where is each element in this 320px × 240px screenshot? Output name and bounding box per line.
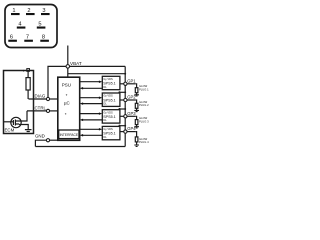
ECM box [4, 71, 34, 134]
wire: transistor drain to CTRL [19, 111, 27, 121]
svg-text:DL: DL [103, 135, 107, 139]
GND pin circle [46, 139, 49, 142]
VBAT bus vertical [124, 66, 126, 146]
resistor R (pull-up) [26, 78, 30, 90]
pin 2 [26, 8, 35, 15]
svg-text:8: 8 [42, 35, 45, 41]
label GND [35, 133, 45, 138]
GP2 pin circle [124, 98, 127, 101]
supply stub SPS3 [118, 108, 126, 110]
svg-text:+: + [23, 68, 26, 73]
glow module box [58, 77, 80, 140]
label DIAG [35, 94, 46, 99]
svg-text:*: * [66, 93, 68, 98]
pin 4 [17, 21, 26, 28]
wire: SPS2 output [120, 99, 135, 101]
wire: VBAT into module [67, 68, 69, 77]
wire: CTRL [27, 110, 47, 112]
label GP1 [127, 78, 136, 83]
svg-text:DIAG: DIAG [35, 94, 46, 99]
pin 6 [8, 35, 17, 42]
label GP4 [127, 126, 136, 131]
svg-text:PLUG 2: PLUG 2 [139, 103, 149, 107]
supply stub SPS2 [118, 91, 126, 93]
label CTRL [35, 106, 47, 111]
supply stub SPS4 [118, 125, 126, 127]
label glow plug 2 [139, 100, 149, 107]
label GP2 [127, 95, 136, 100]
svg-text:*: * [65, 112, 67, 117]
svg-text:1: 1 [12, 8, 15, 14]
SPS2 labels [103, 94, 116, 106]
ground (ECM internal) [25, 130, 32, 132]
label VBAT [70, 61, 82, 66]
GP3 pin circle [124, 115, 127, 118]
svg-text:DL: DL [103, 118, 107, 122]
arrow diag SPS4 [80, 134, 103, 137]
label glow plug 1 [139, 84, 149, 91]
VBAT stem [67, 46, 69, 65]
pin 5 [37, 21, 46, 28]
wire: GND [35, 140, 46, 146]
wire: resistor to DIAG node [27, 90, 29, 99]
svg-text:4: 4 [18, 21, 21, 27]
svg-text:ECM: ECM [5, 128, 15, 133]
arrow diag SPS1 [80, 87, 103, 90]
svg-text:5: 5 [38, 21, 41, 27]
arrow diag SPS2 [80, 102, 103, 105]
connector pinout box [5, 5, 57, 48]
transistor Q (low-side driver) [4, 117, 22, 127]
glow plug 2 [134, 100, 139, 112]
arrow diag SPS3 [80, 119, 103, 122]
svg-text:6: 6 [10, 35, 13, 41]
asterisk 2 [65, 112, 67, 117]
node: DIAG wire [29, 98, 47, 100]
wire: VBAT rail to bus [48, 66, 125, 97]
svg-text:INTERFACE: INTERFACE [60, 133, 79, 137]
svg-text:VBAT: VBAT [70, 61, 82, 66]
op-amp µC [64, 100, 70, 105]
svg-text:PLUG 3: PLUG 3 [139, 119, 149, 123]
junction A [124, 73, 126, 75]
SPS4 box [102, 126, 120, 139]
asterisk 1 [66, 93, 68, 98]
svg-text:3: 3 [42, 8, 45, 14]
svg-text:Gy VDS: Gy VDS [103, 94, 113, 98]
SPS1 labels [103, 77, 116, 89]
glow plug 1 [134, 84, 139, 96]
SPS2 box [102, 93, 120, 106]
arrow ctrl SPS1 [80, 80, 103, 83]
arrow ctrl SPS4 [80, 128, 103, 131]
svg-text:Gy VDS: Gy VDS [103, 110, 113, 114]
label glow plug 4 [139, 137, 149, 144]
GP1 pin circle [124, 82, 127, 85]
svg-text:GP3: GP3 [127, 111, 136, 116]
svg-text:GP1: GP1 [127, 78, 136, 83]
wire: GND pin to module [49, 139, 57, 141]
wire: terminal to resistor [27, 71, 29, 77]
arrow ctrl SPS2 [80, 96, 103, 99]
label GP3 [127, 111, 136, 116]
GP4 pin circle [124, 130, 127, 133]
SPS1 box [102, 76, 120, 89]
DIAG pin circle [46, 97, 49, 100]
svg-text:PLUG 1: PLUG 1 [139, 87, 149, 91]
glow plug 4 [134, 132, 139, 147]
VBAT terminal circle [66, 65, 70, 69]
wire: SPS4 output [120, 131, 135, 133]
ground bus [35, 146, 125, 148]
label glow plug 3 [139, 116, 149, 123]
SPS4 labels [103, 127, 116, 139]
wire: CTRL pin to module [49, 110, 57, 112]
wire: DIAG pin to module [49, 98, 57, 100]
svg-text:GND: GND [35, 133, 45, 138]
pin 1 [11, 8, 20, 15]
INTERFACE block [59, 130, 79, 139]
arrow ctrl SPS3 [80, 112, 103, 115]
svg-text:Gy VDS: Gy VDS [103, 127, 113, 131]
label PSU [62, 82, 71, 87]
svg-text:PLUG 4: PLUG 4 [139, 140, 149, 144]
svg-text:µC: µC [64, 100, 70, 105]
wire: supply rail [68, 73, 125, 75]
CTRL pin circle [46, 109, 49, 112]
+B supply terminal [23, 68, 30, 73]
glow plug 3 [134, 116, 139, 128]
pin 8 [40, 35, 49, 42]
pin 7 [24, 35, 33, 42]
svg-text:CTRL: CTRL [35, 106, 47, 111]
svg-text:2: 2 [27, 8, 30, 14]
SPS3 box [102, 110, 120, 123]
wire: transistor source [19, 125, 28, 130]
wire: SPS1 output [120, 83, 135, 85]
wire: SPS3 output [120, 115, 135, 117]
SPS3 labels [103, 110, 116, 122]
pin 3 [41, 8, 50, 15]
svg-text:7: 7 [26, 35, 29, 41]
svg-text:DL: DL [103, 102, 107, 106]
svg-text:GP2: GP2 [127, 95, 136, 100]
svg-text:Gy VDS: Gy VDS [103, 77, 113, 81]
svg-text:PSU: PSU [62, 82, 71, 87]
svg-text:GP4: GP4 [127, 126, 136, 131]
svg-text:DL: DL [103, 85, 107, 89]
